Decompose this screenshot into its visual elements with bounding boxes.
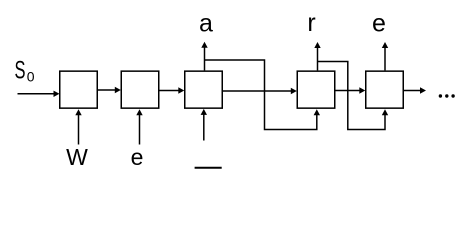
svg-text:a: a	[199, 9, 213, 37]
svg-text:W: W	[66, 144, 88, 170]
svg-text:r: r	[307, 9, 315, 37]
svg-text:e: e	[372, 9, 386, 37]
svg-text:S: S	[15, 57, 26, 85]
svg-text:0: 0	[27, 69, 35, 85]
svg-text:e: e	[131, 144, 144, 170]
